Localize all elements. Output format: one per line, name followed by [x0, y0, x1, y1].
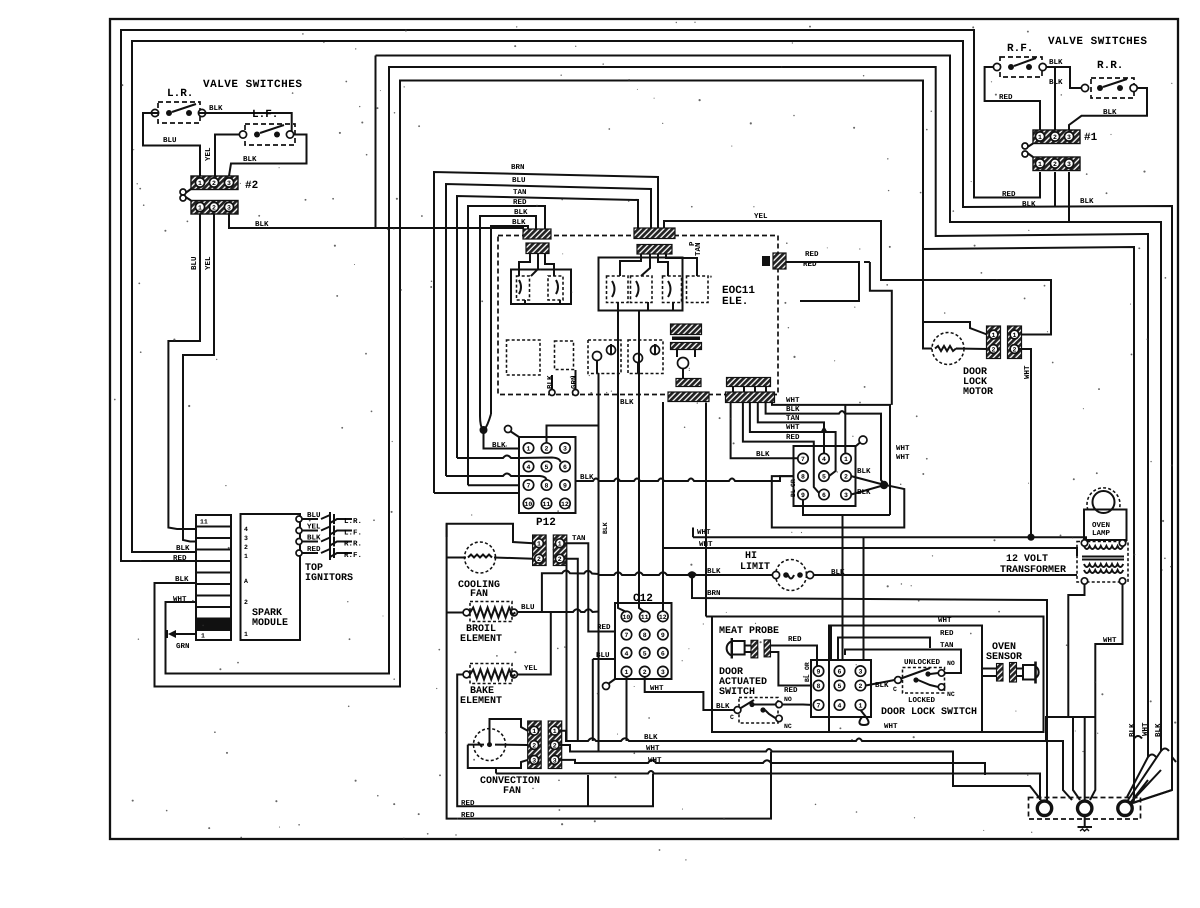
svg-text:NO: NO: [947, 660, 955, 667]
svg-text:#2: #2: [245, 180, 258, 192]
svg-text:BLK: BLK: [644, 734, 658, 742]
svg-text:WHT: WHT: [786, 397, 800, 405]
svg-text:YEL: YEL: [205, 256, 213, 270]
svg-text:12: 12: [659, 614, 667, 621]
svg-text:RED: RED: [173, 555, 187, 563]
svg-text:BL: BL: [804, 674, 811, 682]
svg-text:9: 9: [801, 492, 805, 499]
svg-text:BRN: BRN: [511, 164, 525, 172]
svg-text:3: 3: [661, 669, 665, 676]
svg-text:RED: RED: [940, 630, 954, 638]
svg-text:BLK: BLK: [243, 156, 257, 164]
svg-text:BLK: BLK: [176, 545, 190, 553]
svg-text:3: 3: [1067, 161, 1071, 168]
svg-text:WHT: WHT: [896, 445, 910, 453]
svg-text:RED: RED: [999, 94, 1013, 102]
svg-text:WHT: WHT: [646, 745, 660, 753]
svg-text:1: 1: [844, 456, 848, 463]
svg-text:BLU: BLU: [163, 137, 177, 145]
svg-text:8: 8: [801, 474, 805, 481]
svg-text:BLK: BLK: [620, 399, 634, 407]
svg-text:BLK: BLK: [1080, 198, 1094, 206]
svg-text:1: 1: [532, 728, 536, 735]
svg-text:1: 1: [244, 553, 248, 560]
svg-text:ELE.: ELE.: [722, 296, 748, 308]
svg-text:3: 3: [859, 669, 863, 676]
svg-text:BLK: BLK: [512, 219, 526, 227]
svg-text:C: C: [730, 714, 734, 721]
svg-text:6: 6: [661, 650, 665, 657]
svg-text:10: 10: [623, 614, 631, 621]
svg-text:RED: RED: [461, 800, 475, 808]
svg-text:9: 9: [817, 669, 821, 676]
svg-text:SWITCH: SWITCH: [719, 687, 755, 698]
svg-text:WHT: WHT: [896, 454, 910, 462]
svg-text:MODULE: MODULE: [252, 618, 288, 629]
svg-text:WHT: WHT: [1142, 722, 1150, 736]
svg-text:2: 2: [1053, 134, 1057, 141]
svg-text:BLK: BLK: [580, 474, 594, 482]
svg-text:BLK: BLK: [1049, 79, 1063, 87]
svg-text:YEL: YEL: [524, 665, 538, 673]
svg-text:RED: RED: [513, 199, 527, 207]
svg-text:12: 12: [561, 501, 569, 508]
svg-text:7: 7: [817, 703, 821, 710]
svg-text:OVEN: OVEN: [1092, 521, 1110, 530]
svg-text:3: 3: [227, 180, 231, 187]
svg-text:1: 1: [1038, 134, 1042, 141]
svg-text:WHT: WHT: [786, 424, 800, 432]
svg-text:NC: NC: [784, 723, 792, 730]
svg-text:BLK: BLK: [1022, 201, 1036, 209]
svg-text:BLK: BLK: [1155, 723, 1163, 737]
svg-text:BRN: BRN: [707, 590, 721, 598]
svg-text:NO: NO: [784, 696, 792, 703]
svg-text:OR: OR: [804, 662, 811, 670]
svg-text:LIMIT: LIMIT: [740, 562, 770, 573]
svg-text:1: 1: [859, 703, 863, 710]
svg-text:RED: RED: [307, 546, 321, 554]
svg-text:WHT: WHT: [1024, 365, 1032, 379]
svg-text:BLK: BLK: [707, 568, 721, 576]
svg-text:3: 3: [244, 535, 248, 542]
svg-text:7: 7: [801, 456, 805, 463]
svg-text:R.R.: R.R.: [1097, 60, 1123, 72]
svg-text:2: 2: [992, 347, 996, 354]
svg-text:2: 2: [545, 446, 549, 453]
svg-text:BLK: BLK: [175, 576, 189, 584]
svg-text:4: 4: [244, 526, 248, 533]
svg-text:2: 2: [553, 743, 557, 750]
svg-text:TAN: TAN: [513, 189, 527, 197]
svg-text:1: 1: [558, 541, 562, 548]
svg-text:IGNITORS: IGNITORS: [305, 573, 353, 584]
svg-text:HI: HI: [745, 551, 757, 562]
svg-text:10: 10: [525, 501, 533, 508]
svg-text:5: 5: [838, 683, 842, 690]
svg-text:BLK: BLK: [602, 522, 609, 534]
svg-text:ELEMENT: ELEMENT: [460, 696, 502, 707]
svg-text:2: 2: [537, 556, 541, 563]
svg-text:BLU: BLU: [521, 604, 535, 612]
svg-text:YEL: YEL: [754, 213, 768, 221]
svg-text:R.R.: R.R.: [344, 541, 362, 549]
svg-text:3: 3: [553, 757, 557, 764]
svg-text:VALVE SWITCHES: VALVE SWITCHES: [1048, 36, 1147, 48]
svg-text:7: 7: [527, 483, 531, 490]
svg-text:#1: #1: [1084, 132, 1098, 144]
svg-text:RED: RED: [786, 434, 800, 442]
svg-text:6: 6: [563, 464, 567, 471]
svg-text:2: 2: [1053, 161, 1057, 168]
svg-text:MEAT PROBE: MEAT PROBE: [719, 626, 779, 637]
svg-text:1: 1: [625, 669, 629, 676]
svg-text:GRN: GRN: [570, 375, 579, 389]
svg-text:BLK: BLK: [307, 535, 321, 543]
svg-text:7: 7: [625, 632, 629, 639]
svg-text:4: 4: [822, 456, 826, 463]
svg-text:5: 5: [822, 474, 826, 481]
svg-text:8: 8: [817, 683, 821, 690]
svg-text:L.R.: L.R.: [344, 518, 362, 526]
svg-text:1: 1: [527, 446, 531, 453]
svg-text:BLK: BLK: [492, 442, 506, 450]
svg-text:1: 1: [198, 205, 202, 212]
svg-text:3: 3: [563, 446, 567, 453]
svg-text:GR: GR: [790, 479, 797, 487]
svg-text:4: 4: [527, 464, 531, 471]
svg-text:L.R.: L.R.: [167, 88, 193, 100]
svg-text:1: 1: [553, 728, 557, 735]
svg-text:TAN: TAN: [572, 535, 586, 543]
svg-text:5: 5: [643, 650, 647, 657]
svg-text:1: 1: [201, 633, 205, 640]
svg-text:WHT: WHT: [938, 617, 952, 625]
svg-text:11: 11: [200, 519, 208, 526]
svg-text:BLK: BLK: [716, 703, 730, 711]
svg-text:2: 2: [859, 683, 863, 690]
svg-text:1: 1: [537, 541, 541, 548]
svg-text:3: 3: [844, 492, 848, 499]
svg-text:LAMP: LAMP: [1092, 530, 1111, 538]
svg-text:C12: C12: [633, 593, 653, 605]
svg-text:1: 1: [1038, 161, 1042, 168]
svg-text:BL: BL: [790, 489, 797, 497]
svg-text:ELEMENT: ELEMENT: [460, 634, 502, 645]
svg-text:BLK: BLK: [209, 105, 223, 113]
svg-text:3: 3: [532, 757, 536, 764]
svg-text:2: 2: [212, 205, 216, 212]
svg-text:BLK: BLK: [857, 489, 871, 497]
svg-text:BLK: BLK: [786, 406, 800, 414]
svg-text:3: 3: [1067, 134, 1071, 141]
svg-text:P12: P12: [536, 517, 556, 529]
svg-text:BLK: BLK: [857, 468, 871, 476]
svg-text:BLK: BLK: [756, 451, 770, 459]
svg-text:L.F.: L.F.: [344, 530, 362, 538]
svg-text:BLK: BLK: [875, 682, 889, 690]
svg-text:11: 11: [543, 501, 551, 508]
svg-text:BLK: BLK: [1103, 109, 1117, 117]
svg-text:WHT: WHT: [697, 529, 711, 537]
svg-text:RED: RED: [597, 624, 611, 632]
svg-text:UNLOCKED: UNLOCKED: [904, 658, 941, 667]
svg-text:C: C: [893, 686, 897, 693]
svg-text:BLK: BLK: [1129, 723, 1137, 737]
svg-text:1: 1: [1013, 332, 1017, 339]
svg-text:6: 6: [822, 492, 826, 499]
svg-text:2: 2: [532, 743, 536, 750]
svg-text:9: 9: [661, 632, 665, 639]
svg-text:1: 1: [244, 631, 248, 638]
svg-text:2: 2: [558, 556, 562, 563]
svg-text:YEL: YEL: [205, 147, 213, 161]
svg-text:R.F.: R.F.: [1007, 43, 1033, 55]
svg-text:MOTOR: MOTOR: [963, 387, 993, 398]
svg-text:3: 3: [227, 205, 231, 212]
svg-text:SENSOR: SENSOR: [986, 652, 1022, 663]
svg-text:1: 1: [198, 180, 202, 187]
svg-text:12 VOLT: 12 VOLT: [1006, 554, 1048, 565]
svg-text:BLU: BLU: [191, 256, 199, 270]
svg-text:BLU: BLU: [307, 512, 321, 520]
svg-text:4: 4: [625, 650, 629, 657]
svg-text:BLU: BLU: [512, 177, 526, 185]
svg-text:6: 6: [838, 669, 842, 676]
svg-text:LOCKED: LOCKED: [908, 696, 936, 705]
svg-text:GRN: GRN: [176, 642, 190, 651]
svg-text:2: 2: [212, 180, 216, 187]
svg-text:L.F.: L.F.: [252, 109, 278, 121]
svg-text:A: A: [244, 578, 248, 585]
svg-text:1: 1: [992, 332, 996, 339]
svg-text:TAN: TAN: [940, 642, 954, 650]
svg-text:11: 11: [641, 614, 649, 621]
svg-text:2: 2: [244, 599, 248, 606]
svg-text:YEL: YEL: [307, 524, 321, 532]
svg-text:RED: RED: [784, 687, 798, 695]
svg-text:2: 2: [244, 544, 248, 551]
svg-text:WHT: WHT: [1103, 637, 1117, 645]
svg-text:9: 9: [563, 483, 567, 490]
svg-text:RED: RED: [805, 251, 819, 259]
svg-text:WHT: WHT: [884, 723, 898, 731]
svg-text:TAN: TAN: [786, 415, 800, 423]
svg-text:BLK: BLK: [255, 221, 269, 229]
svg-text:8: 8: [545, 483, 549, 490]
svg-text:WHT: WHT: [648, 757, 662, 765]
svg-text:BLK: BLK: [547, 375, 555, 389]
svg-text:FAN: FAN: [470, 589, 488, 600]
svg-text:2: 2: [1013, 347, 1017, 354]
svg-text:8: 8: [643, 632, 647, 639]
svg-text:DOOR LOCK SWITCH: DOOR LOCK SWITCH: [881, 707, 977, 718]
svg-text:BLK: BLK: [514, 209, 528, 217]
svg-text:NC: NC: [947, 691, 955, 698]
svg-text:FAN: FAN: [503, 786, 521, 797]
svg-text:RED: RED: [1002, 191, 1016, 199]
svg-text:WHT: WHT: [650, 685, 664, 693]
svg-text:5: 5: [545, 464, 549, 471]
svg-text:VALVE SWITCHES: VALVE SWITCHES: [203, 79, 302, 91]
svg-text:R.F.: R.F.: [344, 552, 362, 560]
svg-text:4: 4: [838, 703, 842, 710]
svg-text:WHT: WHT: [173, 596, 187, 604]
svg-text:BLK: BLK: [1049, 59, 1063, 67]
svg-text:RED: RED: [788, 636, 802, 644]
svg-text:2: 2: [643, 669, 647, 676]
svg-text:2: 2: [844, 474, 848, 481]
